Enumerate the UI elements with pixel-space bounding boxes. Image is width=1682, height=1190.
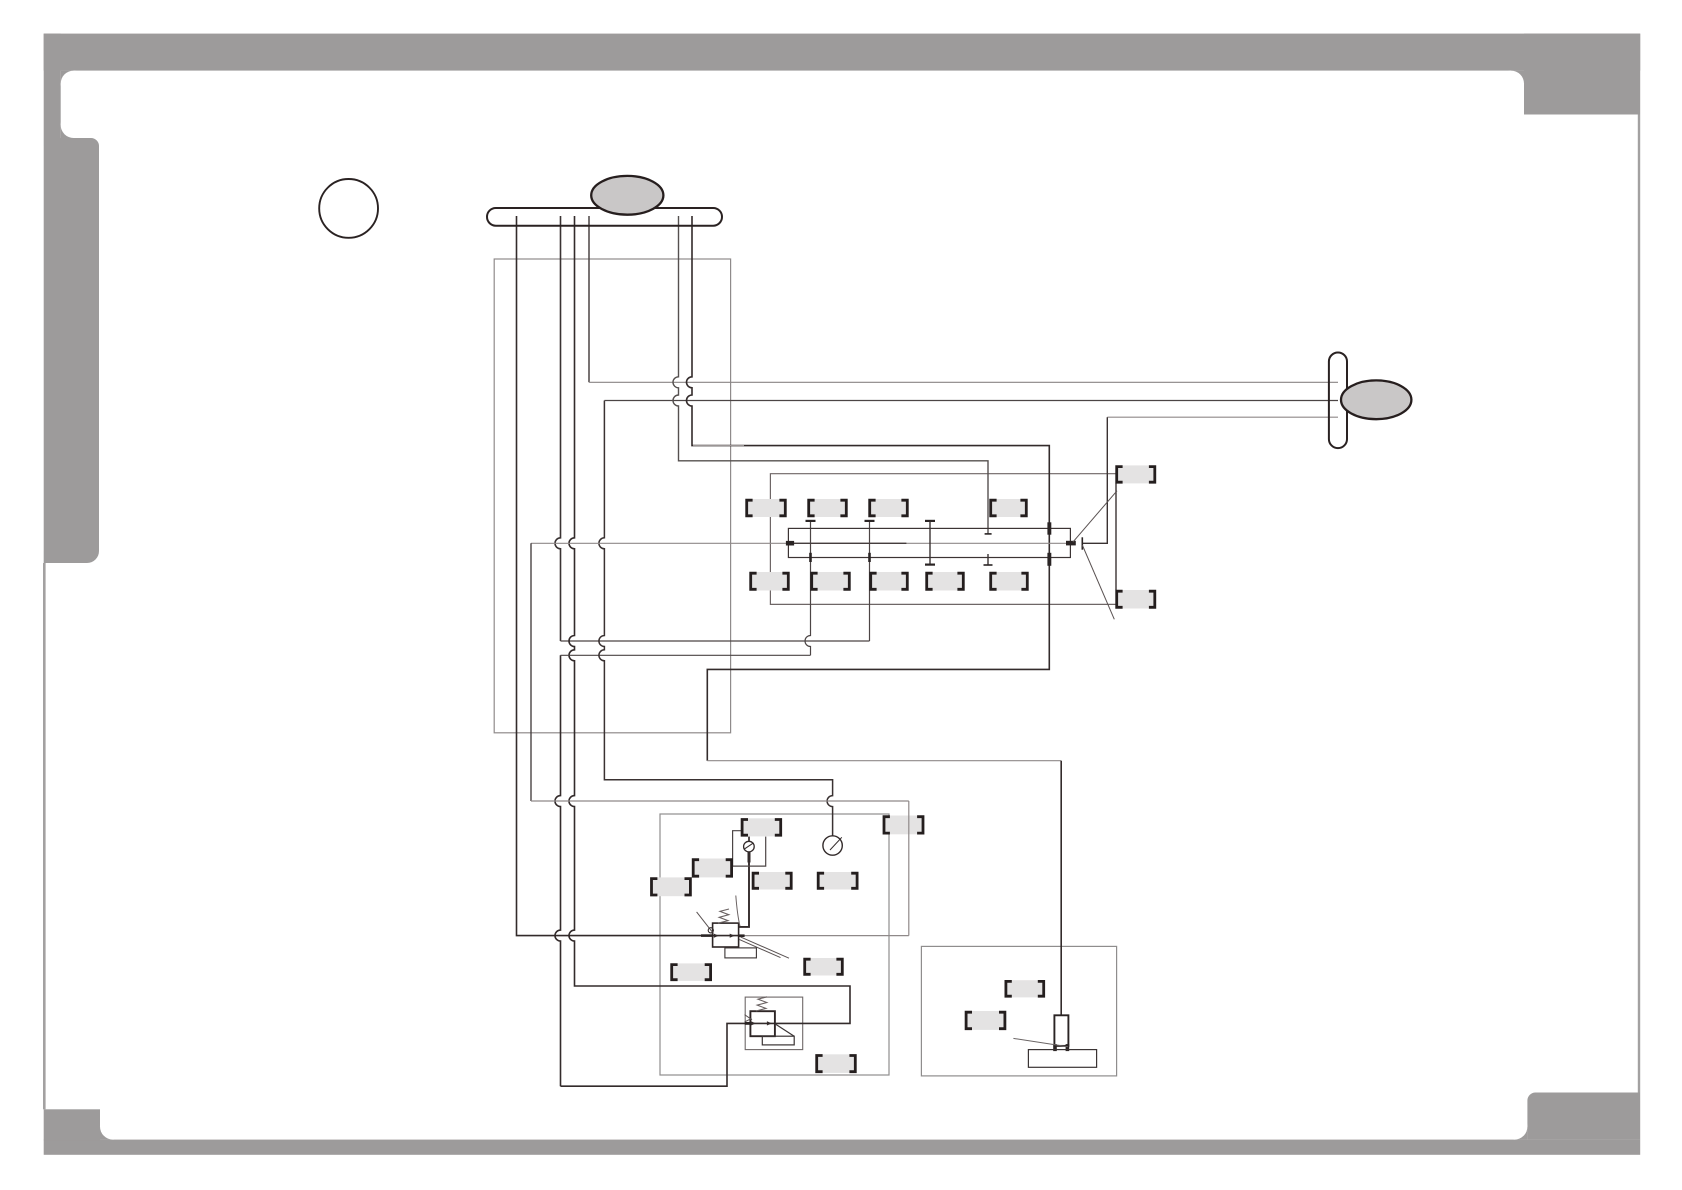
valve 2 port arrow left <box>751 1021 756 1025</box>
thermostat thick lead <box>748 852 751 863</box>
top grommet ellipse <box>591 176 663 215</box>
valve 1 long diagonal b <box>740 940 781 958</box>
valve 1 port arrow right <box>730 934 735 938</box>
wire to right pill y417 <box>1107 416 1338 418</box>
valve 2 spring <box>756 997 767 1011</box>
motor solenoid rect <box>1054 1015 1068 1046</box>
fan-out leader upper <box>1073 491 1117 542</box>
connector CN-K3 body <box>693 859 733 878</box>
wire W2 riser to pin A3 <box>869 521 871 641</box>
pin P1 thick lower tick <box>809 553 812 562</box>
connector CN-A3 body <box>869 499 908 517</box>
connector CN-B2 brackets <box>812 573 850 589</box>
valve 1 thick right port <box>739 934 745 937</box>
connector CN-M1 brackets <box>1006 981 1044 996</box>
pin tick on PCB left edge <box>786 541 794 546</box>
connector CN-K2 brackets <box>884 817 923 833</box>
thermostat circle A with stem <box>748 837 750 842</box>
right grommet ellipse <box>1341 380 1411 419</box>
connector CN-B2 body <box>811 572 850 591</box>
wire drop x1107 to inline pin <box>1083 417 1107 543</box>
pin tick upper on PCB right vertical <box>1047 522 1051 534</box>
valve 2 enclosure box <box>745 997 803 1050</box>
valve 1 stem line <box>736 896 740 927</box>
main PCB long rectangle <box>788 528 1070 557</box>
connector CN-A2 brackets <box>809 500 847 516</box>
wire net drop x531 <box>530 543 532 801</box>
valve 1 long diagonal a <box>741 937 790 958</box>
wire W1 pill-1 to valve1 to node <box>517 216 739 936</box>
motor terminal left <box>1053 1044 1057 1051</box>
connector CN-K7 body <box>671 963 711 981</box>
connector CN-K9 brackets <box>817 1056 856 1072</box>
wire gray net y543 <box>531 542 1066 544</box>
connector CN-K1 body <box>741 818 781 836</box>
lower dispenser box <box>660 814 889 1075</box>
connector CN-K7 brackets <box>672 965 711 980</box>
connector CN-M2 body <box>965 1011 1005 1030</box>
connector CN-M1 body <box>1005 980 1044 997</box>
motor box <box>921 946 1116 1076</box>
connector CN-R2 brackets <box>1117 591 1155 607</box>
right harness pill <box>1329 353 1347 449</box>
valve 1 spring <box>718 909 729 923</box>
pin P4 shaft <box>987 554 989 565</box>
connector CN-K6 body <box>818 872 858 890</box>
pin P2 thick lower tick <box>868 553 871 562</box>
wire W2 pill-2 down to line641 and pin A3 <box>555 216 561 641</box>
valve 2 arrow <box>745 1015 752 1022</box>
wire W3 horizontal y655 <box>561 654 811 656</box>
valve 1 leader diagonal <box>697 912 714 934</box>
connector CN-K4 body <box>651 877 691 896</box>
connector CN-B1 body <box>750 572 789 591</box>
motor base rect <box>1028 1050 1096 1068</box>
connector CN-R2 body <box>1116 590 1156 609</box>
connector CN-K3 brackets <box>693 860 731 877</box>
wire W1 gray run to node N1 <box>739 935 909 937</box>
wire net drop x909 to node N1 <box>908 801 910 936</box>
valve 2 diagonal <box>775 1024 794 1036</box>
top harness pill <box>487 208 722 226</box>
left harness area box <box>494 259 730 733</box>
inline connector pin at PCB output <box>1066 541 1076 546</box>
sensor circle B <box>823 836 842 855</box>
valve 2 port arrow right <box>767 1021 772 1025</box>
pin P3 bottom T-bar <box>925 563 935 565</box>
wire W3 pill-3 long loop to pin A2 <box>561 216 851 1086</box>
valve 2 pedestal <box>762 1036 794 1045</box>
hole circle marker <box>319 179 378 238</box>
valve 1 pedestal <box>725 948 757 958</box>
connector CN-K6 brackets <box>818 873 857 888</box>
wire W4 line2 vertical to circle B <box>599 401 833 836</box>
connector CN-R1 brackets <box>1117 467 1155 483</box>
pin P1 T-bar <box>806 520 816 522</box>
wire W1 thick valve entry <box>701 934 713 937</box>
pin P3 shaft <box>929 521 931 564</box>
motor leader line <box>1013 1038 1068 1046</box>
thermostat circle A body <box>744 841 755 852</box>
connector CN-K5 brackets <box>753 873 791 888</box>
inline pin tick <box>1081 537 1083 549</box>
pin P4 lower <box>985 533 992 535</box>
connector CN-K5 body <box>752 872 792 890</box>
connector CN-K8 body <box>804 958 843 976</box>
wire W2 horizontal y641 <box>561 640 870 642</box>
connector CN-B5 brackets <box>991 573 1028 589</box>
pin P2 T-bar <box>865 520 875 522</box>
wire line1 to right grommet <box>588 216 590 382</box>
wire W3 riser to pin A2 <box>805 521 810 655</box>
connector CN-A3 brackets <box>870 500 908 516</box>
sensor circle B slash <box>830 837 842 850</box>
component loop under connector K1 <box>733 831 766 866</box>
wire net horizontal y801 <box>531 800 909 802</box>
connector CN-B3 brackets <box>871 573 908 589</box>
connector CN-K9 body <box>816 1054 856 1073</box>
connector CN-K1 brackets <box>742 820 781 836</box>
wire W3 return riser x560 <box>555 655 561 1086</box>
pin tick lower on PCB right vertical <box>1047 553 1051 566</box>
pin P4 bottom T-bar <box>984 564 993 566</box>
valve 2 square <box>750 1011 775 1036</box>
wire W7 pill-6 main run to motor <box>687 216 1050 761</box>
fan-out leader lower <box>1082 545 1114 619</box>
pin P3 <box>925 520 935 522</box>
connector CN-A4 body <box>990 499 1027 517</box>
control connector frame (open box to right connectors) <box>770 474 1116 605</box>
right connector link vertical <box>1115 483 1117 590</box>
valve 2 entry thick <box>745 1022 753 1025</box>
connector CN-R1 body <box>1116 465 1156 483</box>
connector CN-K4 brackets <box>652 879 691 895</box>
connector CN-A4 brackets <box>991 500 1027 516</box>
wire line1 horizontal run <box>589 381 1338 383</box>
connector CN-K2 body <box>883 816 923 835</box>
wire net dark overlay in PCB <box>788 542 906 544</box>
motor terminal right <box>1066 1044 1070 1051</box>
connector CN-B5 body <box>990 572 1028 591</box>
wire W7 gray left stub y445 <box>693 445 744 447</box>
connector CN-B4 body <box>926 572 964 591</box>
connector CN-A2 body <box>808 499 847 517</box>
valve 1 port arrow left <box>714 934 719 938</box>
connector CN-K8 brackets <box>805 959 843 974</box>
connector CN-B1 brackets <box>751 573 789 589</box>
valve 1 inlet circle <box>708 928 713 933</box>
connector CN-A1 brackets <box>747 500 786 516</box>
wire W6 pill-5 to pin A4 <box>673 216 988 534</box>
wire line2 to right grommet <box>604 400 1338 402</box>
connector CN-B3 body <box>870 572 908 591</box>
thermostat lead to valve 1 <box>739 863 749 927</box>
wire W7 gray run y760 <box>707 760 1061 762</box>
connector CN-A1 body <box>746 499 786 517</box>
valve 1 square <box>713 923 739 947</box>
thermostat circle A slash <box>745 843 754 849</box>
connector CN-M2 brackets <box>966 1012 1005 1028</box>
connector CN-B4 brackets <box>927 573 964 589</box>
wire W7 drop to motor <box>1060 761 1062 1016</box>
